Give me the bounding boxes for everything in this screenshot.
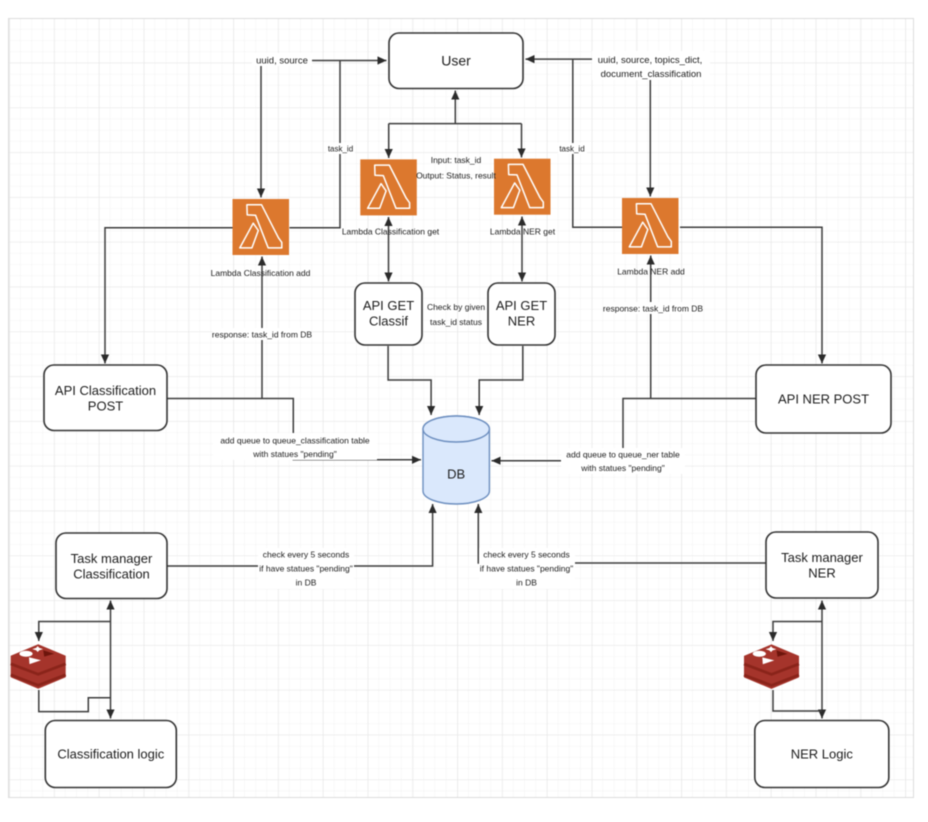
svg-text:if have statues "pending": if have statues "pending"	[480, 564, 573, 574]
lambda icon Lambda NER add	[617, 198, 685, 277]
wire branch to redis right	[773, 622, 822, 642]
label task_id right	[558, 143, 587, 154]
box API GET NER	[488, 283, 555, 345]
svg-text:DB: DB	[447, 467, 465, 482]
svg-text:task_id status: task_id status	[430, 317, 482, 327]
label Check by given task_id status	[427, 302, 485, 327]
svg-text:with statues "pending": with statues "pending"	[252, 449, 337, 459]
svg-text:API GET: API GET	[363, 298, 414, 313]
svg-text:response: task_id from DB: response: task_id from DB	[603, 304, 703, 314]
wire lambda-ner-get to API GET NER	[521, 217, 523, 282]
svg-text:task_id: task_id	[328, 145, 353, 154]
cylinder DB	[423, 416, 489, 504]
svg-text:Classification: Classification	[73, 567, 150, 582]
svg-text:User: User	[441, 53, 471, 69]
wire redis right out	[773, 690, 822, 711]
box Task manager Classification	[56, 533, 167, 599]
svg-text:check every 5 seconds: check every 5 seconds	[263, 550, 349, 560]
label add queue to queue_ner table	[561, 448, 685, 474]
svg-text:Output: Status, result: Output: Status, result	[416, 171, 496, 181]
wire uuid,source down to lambda-classification-add	[260, 66, 262, 198]
label check every 5 seconds right	[479, 548, 575, 589]
wire uuid,source,topics_dict to User	[526, 58, 595, 60]
svg-text:Lambda NER add: Lambda NER add	[617, 267, 685, 277]
box API NER POST	[756, 365, 891, 433]
svg-text:NER Logic: NER Logic	[791, 747, 854, 762]
svg-text:response: task_id from DB: response: task_id from DB	[212, 330, 312, 340]
svg-text:Classification logic: Classification logic	[57, 747, 164, 762]
lambda icon Lambda Classification add	[211, 199, 311, 278]
svg-text:Lambda Classification get: Lambda Classification get	[342, 227, 440, 237]
box API GET Classif	[355, 283, 422, 345]
wire response task_id right up to lambda-ner-add	[650, 256, 652, 399]
svg-text:if have statues "pending": if have statues "pending"	[259, 564, 352, 574]
svg-text:in DB: in DB	[296, 578, 317, 588]
wire branch to redis left	[39, 622, 111, 642]
wire response task_id left up to lambda-classification-add	[261, 257, 263, 399]
svg-text:Check by given: Check by given	[427, 302, 485, 312]
wire API GET NER to DB	[479, 346, 523, 415]
label response task_id from DB left	[212, 328, 312, 340]
wire document_classification down to lambda-ner-add	[649, 80, 651, 197]
wire lambda-classification-add to User (task_id)	[290, 61, 341, 228]
redis icon left	[11, 644, 66, 689]
svg-text:API Classification: API Classification	[55, 383, 156, 398]
svg-text:uuid, source, topics_dict,: uuid, source, topics_dict,	[598, 55, 703, 66]
svg-text:with statues "pending": with statues "pending"	[580, 463, 665, 473]
label uuid, source, topics_dict, document_classification	[592, 51, 710, 80]
redis icon right	[744, 644, 799, 689]
label task_id left	[326, 143, 355, 154]
svg-text:API GET: API GET	[496, 298, 547, 313]
svg-text:NER: NER	[808, 566, 835, 581]
svg-text:uuid, source: uuid, source	[256, 56, 308, 67]
svg-text:add queue to queue_classificat: add queue to queue_classification table	[220, 436, 370, 446]
lambda icon Lambda NER get	[490, 159, 556, 237]
svg-text:Task manager: Task manager	[781, 550, 863, 565]
svg-text:add queue to queue_ner table: add queue to queue_ner table	[566, 450, 680, 460]
svg-text:task_id: task_id	[559, 145, 584, 154]
wire splitter up to User bottom	[389, 123, 522, 125]
box User	[389, 33, 523, 89]
box Classification logic	[45, 721, 176, 788]
wire lambda-classification-add to API Classification POST	[105, 228, 233, 364]
box NER Logic	[755, 721, 889, 788]
wire API GET Classif to DB	[388, 346, 431, 415]
label response task_id from DB right	[603, 302, 703, 314]
wire NER Logic to Task manager NER	[821, 601, 823, 719]
wire Classification logic to Task manager Classification	[110, 601, 112, 719]
wire API NER POST to DB (add queue)	[492, 399, 756, 461]
svg-text:Task manager: Task manager	[71, 551, 153, 566]
label uuid, source	[252, 53, 312, 67]
wire uuid,source to User	[311, 60, 387, 62]
wire API Classification POST to DB (add queue)	[168, 399, 422, 460]
svg-text:check every 5 seconds: check every 5 seconds	[483, 550, 569, 560]
wire lambda-classification-get to API GET Classif	[388, 217, 390, 282]
svg-text:in DB: in DB	[516, 578, 537, 588]
svg-text:API NER POST: API NER POST	[778, 392, 869, 407]
wire lambda-ner-add to API NER POST	[680, 227, 822, 363]
label add queue to queue_classification table	[213, 433, 377, 460]
box Task manager NER	[766, 532, 878, 598]
wire Task manager NER to DB	[478, 504, 765, 563]
wire redis left out	[39, 690, 111, 712]
svg-text:Lambda Classification add: Lambda Classification add	[211, 268, 311, 278]
lambda icon Lambda Classification get	[342, 159, 440, 236]
svg-text:Classif: Classif	[369, 314, 408, 329]
wire lambda-ner-add to User (task_id)	[573, 60, 622, 228]
wire Task manager Classification to DB	[168, 504, 433, 566]
box API Classification POST	[44, 365, 167, 431]
svg-text:Lambda NER get: Lambda NER get	[490, 227, 556, 237]
label check every 5 seconds left	[258, 548, 354, 589]
svg-text:POST: POST	[88, 399, 123, 414]
svg-text:Input: task_id: Input: task_id	[431, 155, 482, 165]
svg-text:NER: NER	[508, 314, 535, 329]
label Input: task_id / Output: Status, result	[416, 155, 496, 181]
svg-text:document_classification: document_classification	[601, 69, 702, 80]
